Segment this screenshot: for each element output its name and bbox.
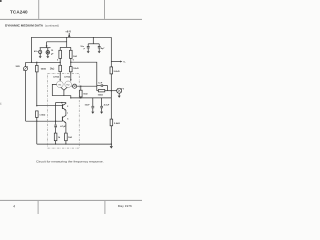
ground C3 <box>91 112 94 114</box>
meter M2 output <box>117 88 122 95</box>
capacitor C5 bridge <box>97 84 108 87</box>
resistor R3 <box>70 47 73 66</box>
resistor R1 <box>59 47 62 65</box>
capacitor C4 <box>100 98 103 112</box>
wire supply arrow stem <box>68 33 70 34</box>
node dot rail 2 <box>65 143 66 144</box>
svg-text:4: 4 <box>13 205 15 209</box>
svg-text:1kΩ: 1kΩ <box>73 55 77 58</box>
footer rule <box>0 200 142 201</box>
wire decoupling feed line <box>47 41 67 43</box>
svg-text:(continued): (continued) <box>45 24 59 28</box>
ground C7 <box>87 51 90 53</box>
node dot bus cap <box>55 121 56 122</box>
header tick right <box>104 0 105 19</box>
wire supply stub <box>66 37 68 47</box>
node dot R10 top <box>36 105 37 106</box>
node dot branch <box>80 86 81 87</box>
ground C8 <box>98 51 101 53</box>
transistor TR5 <box>62 115 66 122</box>
meter M1 <box>73 84 77 88</box>
svg-text:1kΩ: 1kΩ <box>68 136 72 139</box>
wire right rail <box>110 37 112 144</box>
svg-text:5.6kΩ: 5.6kΩ <box>114 70 120 73</box>
wire bar E <box>52 96 71 98</box>
node dot input rail join <box>31 62 32 63</box>
node dot col1 pin <box>60 79 61 80</box>
node dot rail 1 <box>55 143 56 144</box>
wire TR4 base line <box>37 105 63 107</box>
capacitor C6 <box>54 125 57 133</box>
svg-text:TR1: TR1 <box>58 84 62 86</box>
node dot input col join <box>36 62 37 63</box>
wire meter to bridge <box>77 85 97 87</box>
footer tick right <box>104 201 105 214</box>
svg-text:1kΩ: 1kΩ <box>50 68 55 71</box>
svg-text:TR2: TR2 <box>66 84 70 86</box>
svg-text:4.7kΩ: 4.7kΩ <box>53 75 59 78</box>
ground meter M2 <box>118 96 121 98</box>
wire group3 bar <box>88 43 99 45</box>
node col2 tap dot <box>70 62 71 63</box>
ground main <box>110 144 113 149</box>
wire cap chain <box>55 103 57 125</box>
resistor R8 bridge <box>97 86 108 92</box>
node col1 tap dot <box>60 62 61 63</box>
wire col2 tap to bridge <box>71 62 97 85</box>
resistor R4 <box>70 67 73 82</box>
svg-text:May 1976: May 1976 <box>118 204 132 208</box>
node dot bus2 left <box>70 97 71 98</box>
generator G1 <box>23 62 28 121</box>
wire bar C collector feed <box>60 46 71 48</box>
node bar F blob <box>61 102 63 104</box>
svg-text:1nF: 1nF <box>98 83 103 85</box>
header tick left <box>38 0 39 19</box>
wire emitter join <box>61 87 64 95</box>
wire TR1 base <box>52 84 56 95</box>
svg-text:15kΩ: 15kΩ <box>98 93 104 96</box>
node output arrowhead <box>120 61 122 63</box>
resistor R11 <box>54 133 57 144</box>
node junction dot B <box>46 45 48 47</box>
svg-text:4.7µF: 4.7µF <box>104 104 110 107</box>
wire TR4 collector <box>65 103 67 104</box>
footer tick left <box>38 201 39 214</box>
wire TR4-TR5 link <box>65 110 67 116</box>
capacitor C3 <box>91 98 94 112</box>
transistor TR4 <box>62 103 66 110</box>
node +6V supply arrowhead <box>68 33 70 37</box>
wire output stub <box>111 61 120 63</box>
svg-text:10nF: 10nF <box>85 105 91 107</box>
svg-text:Circuit for measuring the freq: Circuit for measuring the frequency resp… <box>36 160 104 164</box>
wire bar B <box>40 47 51 49</box>
svg-text:DYNAMIC MEDIUM DATA: DYNAMIC MEDIUM DATA <box>5 24 44 28</box>
svg-text:50Ω: 50Ω <box>16 65 20 68</box>
svg-text:47n: 47n <box>34 50 38 53</box>
wire emitter join 2 <box>64 87 67 90</box>
wire TR2 base to meter <box>71 85 72 87</box>
capacitor C2 electrolytic <box>46 48 50 57</box>
wire group1 stub <box>46 42 48 48</box>
svg-text:50Ω: 50Ω <box>83 93 87 96</box>
ground C1 <box>39 56 42 58</box>
node dot rail right <box>111 143 112 144</box>
svg-text:4.7kΩ: 4.7kΩ <box>64 75 70 78</box>
wire top supply rail <box>32 37 112 62</box>
page background <box>0 0 142 214</box>
resistor R10 <box>36 111 39 144</box>
wire base bus <box>26 120 63 122</box>
svg-text:5.6kΩ: 5.6kΩ <box>114 122 120 125</box>
ground C4 <box>100 112 103 114</box>
svg-text:TCA240: TCA240 <box>10 9 28 14</box>
capacitor C7 <box>87 44 90 51</box>
svg-text:V₀: V₀ <box>123 62 125 64</box>
capacitor C8 <box>98 44 101 51</box>
svg-text:1.5kΩ: 1.5kΩ <box>39 113 45 116</box>
transistor TR2 <box>65 81 72 88</box>
resistor R12 <box>65 133 68 144</box>
wire bridge to meter2 <box>108 90 117 92</box>
node dot on bus2 <box>80 97 81 98</box>
node dot bus col <box>36 121 37 122</box>
wire bus2 <box>71 97 112 99</box>
node dot col2 pin <box>70 79 71 80</box>
transistor TR1 <box>57 81 64 88</box>
svg-text:+6 V: +6 V <box>65 30 71 34</box>
header rule <box>0 19 142 20</box>
resistor R5 <box>36 62 39 105</box>
svg-text:10kΩ: 10kΩ <box>73 67 79 70</box>
capacitor C1 electrolytic <box>39 48 42 57</box>
wire input line <box>26 61 60 63</box>
svg-text:560Ω: 560Ω <box>41 67 47 70</box>
node dot rail crossing <box>111 90 112 91</box>
scan speck top-left corner <box>0 0 2 2</box>
wire bar F <box>56 102 66 104</box>
wire TR5 emitter <box>65 123 67 133</box>
resistor R2 <box>59 65 62 81</box>
resistor R7 <box>80 86 83 98</box>
ground C2 <box>46 56 49 58</box>
resistor R13 <box>110 119 113 126</box>
wire group3 stub <box>92 37 94 44</box>
resistor R9 <box>110 67 113 74</box>
wire meter M2 tail <box>121 87 122 90</box>
wire bottom rail <box>37 143 112 145</box>
IC package outline dash-dot box <box>48 74 80 149</box>
